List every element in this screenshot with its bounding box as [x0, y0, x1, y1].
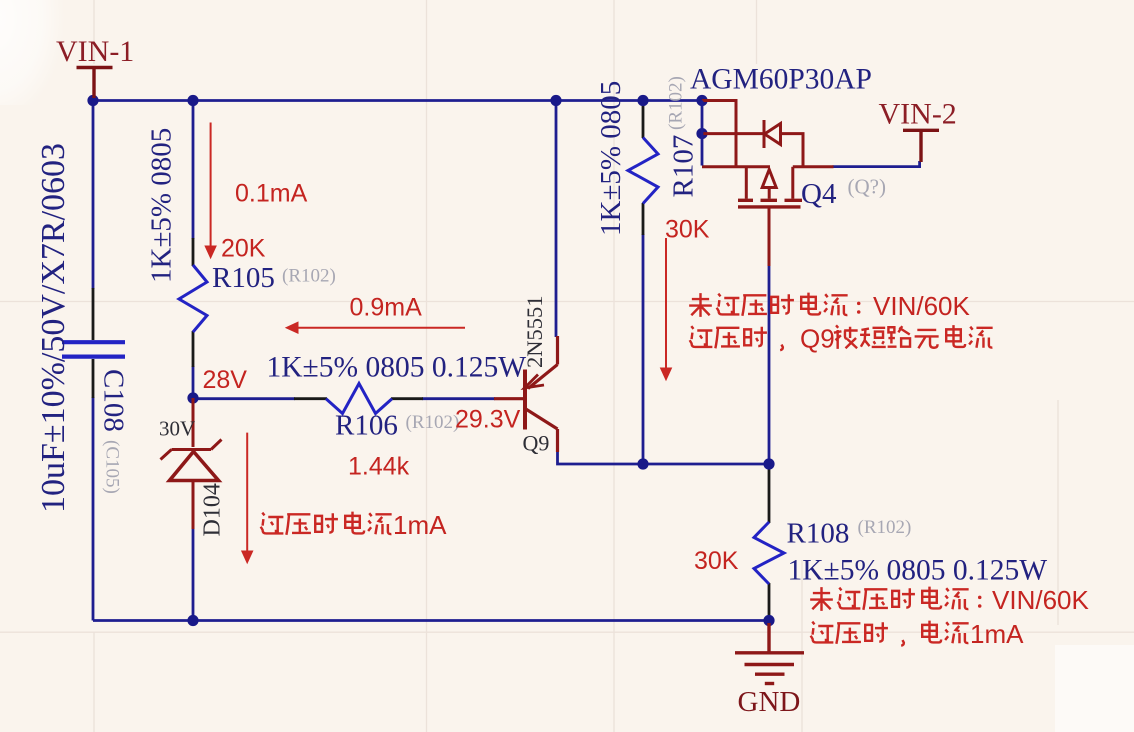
node R107 top [637, 95, 648, 106]
note R108 line2 CJK 过压时， [811, 622, 904, 646]
pin R108 top [768, 469, 771, 523]
svg-text:C108: C108 [98, 369, 130, 432]
pin R108 bottom [768, 583, 771, 617]
svg-text:R105: R105 [212, 262, 275, 294]
resistor R107 [628, 138, 658, 204]
svg-text:0.9mA: 0.9mA [350, 294, 423, 322]
annotation arrow overvoltage current [242, 433, 253, 563]
wire R106 to Q9 base [422, 397, 495, 400]
wire bottom rail [93, 619, 769, 622]
svg-text:(C105): (C105) [102, 440, 123, 494]
svg-text:(R102): (R102) [666, 76, 687, 130]
pin C108 bottom [92, 359, 95, 398]
svg-text:R108: R108 [787, 518, 850, 550]
pin R106 right [391, 397, 423, 400]
pin R107 bottom [642, 203, 645, 235]
node D104 bottom rail [187, 615, 198, 626]
wire D104 anode to bottom rail [192, 528, 195, 621]
wire R105 bottom to node 28V [192, 366, 195, 398]
svg-text:R106: R106 [335, 410, 398, 442]
svg-text:(R102): (R102) [282, 266, 336, 287]
svg-text:VIN-2: VIN-2 [879, 98, 957, 131]
node R108 GND [763, 615, 774, 626]
svg-text:1K±5% 0805 0.125W: 1K±5% 0805 0.125W [267, 352, 527, 384]
note zener CJK 过压时电流 [261, 512, 392, 535]
note top line2 CJK 过压时， [690, 326, 783, 350]
pin R105 bottom [192, 331, 195, 367]
node Q9 emitter top [550, 95, 561, 106]
pin C108 top [92, 288, 95, 340]
svg-text:30K: 30K [665, 216, 710, 244]
svg-text:VIN/60K: VIN/60K [873, 291, 970, 321]
svg-text:AGM60P30AP: AGM60P30AP [690, 64, 872, 96]
node R107 bottom [637, 458, 648, 469]
svg-text:28V: 28V [203, 366, 248, 394]
wire R107 bottom vertical [642, 234, 645, 464]
pin R106 left [294, 397, 327, 400]
capacitor C108 [62, 342, 125, 356]
resistor R105 [179, 265, 207, 332]
svg-text:(R102): (R102) [406, 412, 460, 433]
svg-text:Q4: Q4 [801, 178, 837, 210]
note R108 line1 CJK 未过压时电流： [810, 587, 981, 611]
wire Q9 collector corner [558, 451, 644, 464]
svg-text:0.1mA: 0.1mA [235, 180, 308, 208]
node VIN-1 stem [87, 95, 98, 106]
pin R107 top [642, 102, 645, 138]
svg-text:Q9: Q9 [523, 431, 550, 456]
note top line2 CJK 被短路无电流 [834, 325, 993, 349]
wire Q4 source stub blue [701, 101, 704, 166]
wire Q9 emitter vertical [555, 101, 558, 338]
svg-text:R107: R107 [668, 135, 700, 198]
node R105 top [187, 95, 198, 106]
wire left vertical upper (VIN-1 to C108) [92, 101, 95, 290]
svg-text:1.44k: 1.44k [348, 453, 410, 481]
wire VIN-2 horizontal [833, 161, 920, 167]
node gate R108 [763, 458, 774, 469]
wire mid rail to gate node [643, 463, 769, 466]
svg-text:(R102): (R102) [858, 517, 912, 538]
node Q4 source upper [696, 95, 707, 106]
svg-text:Q9: Q9 [800, 324, 835, 354]
svg-text:1K±5% 0805: 1K±5% 0805 [146, 128, 178, 283]
ground GND [735, 623, 804, 684]
zener diode D104 [161, 398, 222, 529]
mosfet Q4 [702, 101, 834, 267]
svg-text:10uF±10%/50V/X7R/0603: 10uF±10%/50V/X7R/0603 [35, 143, 72, 513]
note R108 line2 CJK 电流 [922, 621, 968, 644]
svg-text:30V: 30V [159, 417, 195, 441]
svg-text:(Q?): (Q?) [848, 175, 886, 199]
annotation arrow 0.1mA [205, 123, 216, 259]
wire node 28V to R106 [193, 397, 295, 400]
power port VIN-2 [903, 130, 939, 162]
wire left vertical lower (C108 to bottom rail) [92, 397, 95, 621]
svg-text:2N5551: 2N5551 [522, 296, 547, 369]
pin R105 top [192, 238, 195, 266]
wire VIN-1 top rail [93, 99, 702, 102]
node Q4 diode tap [696, 128, 707, 139]
node 28V [187, 392, 198, 403]
transistor Q9 [494, 336, 558, 452]
wire Q4 gate vertical [768, 265, 771, 464]
svg-text:1K±5% 0805: 1K±5% 0805 [595, 81, 627, 236]
svg-text:20K: 20K [221, 235, 266, 263]
annotation arrow 30K divider [661, 238, 672, 380]
svg-text:29.3V: 29.3V [455, 406, 521, 434]
svg-text:GND: GND [738, 686, 801, 718]
annotation arrow 0.9mA [286, 322, 465, 333]
resistor R106 [326, 384, 392, 414]
svg-text:VIN-1: VIN-1 [56, 35, 134, 68]
svg-text:1mA: 1mA [393, 510, 447, 540]
wire R105 top lead [192, 101, 195, 240]
svg-text:30K: 30K [694, 547, 739, 575]
svg-text:1K±5% 0805 0.125W: 1K±5% 0805 0.125W [788, 555, 1048, 587]
svg-text:VIN/60K: VIN/60K [992, 585, 1089, 615]
note top line1 CJK 未过压时电流： [689, 293, 860, 317]
svg-text:1mA: 1mA [970, 619, 1024, 649]
resistor R108 [754, 522, 784, 584]
svg-text:D104: D104 [200, 483, 226, 536]
power port VIN-1 [77, 68, 113, 99]
